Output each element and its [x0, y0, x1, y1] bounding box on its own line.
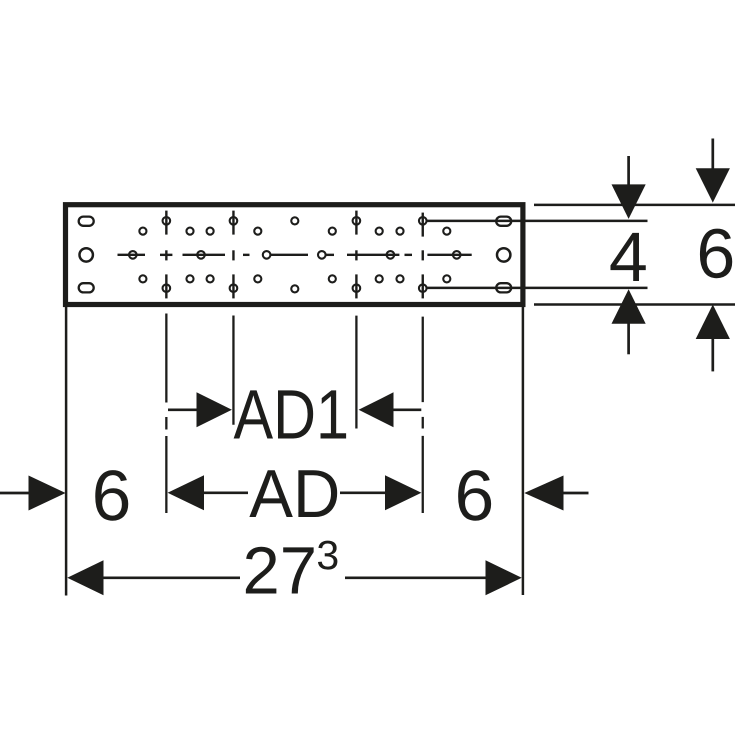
extension line phi column 1 (dashed): [165, 314, 167, 514]
phi holes bottom: [163, 274, 427, 298]
dimension 27 right arrow: [345, 560, 522, 595]
svg-text:6: 6: [455, 456, 495, 536]
extension line plate left edge (below): [65, 307, 68, 596]
big circle hole left: [80, 248, 93, 261]
extension line plate top edge (right side): [534, 204, 735, 207]
dimension 6 bottom arrow (right): [696, 305, 730, 372]
svg-text:6: 6: [696, 215, 735, 293]
phi holes top (circle with vertical centerline): [163, 211, 427, 237]
extension line phi column 2: [232, 316, 234, 425]
dimension 4 bottom arrow: [612, 289, 646, 354]
dimension AD1 right arrow: [359, 392, 422, 427]
dimension AD right arrow: [340, 475, 421, 510]
label superscript 3: [318, 541, 337, 570]
dimension 6 top arrow (right): [696, 139, 730, 203]
extension line plate bottom edge (right side): [534, 303, 735, 306]
small holes top row: [139, 217, 450, 234]
horizontal centerline (chain line) of plate: [118, 250, 472, 260]
big circle hole right: [497, 248, 510, 261]
extension line phi column 4 (dashed): [422, 317, 424, 513]
small holes bottom row: [139, 275, 450, 292]
svg-text:6: 6: [92, 456, 132, 536]
slot hole bottom-left: [79, 283, 94, 292]
svg-text:4: 4: [609, 218, 648, 296]
centerline hole circles: [129, 251, 461, 259]
slot hole top-right: [496, 217, 511, 226]
svg-text:27: 27: [243, 534, 318, 609]
dimension 6 bottom-right: arrow and tail: [524, 476, 588, 511]
extension line bottom phi row: [427, 287, 648, 290]
dimension 27 left arrow: [67, 560, 240, 595]
svg-text:AD1: AD1: [234, 375, 350, 453]
slot hole bottom-right: [496, 283, 511, 292]
extension line plate right edge (below): [522, 307, 525, 595]
extension line top phi row: [427, 220, 648, 223]
svg-text:AD: AD: [249, 456, 340, 532]
plate outline: [66, 205, 523, 305]
extension line phi column 3: [355, 316, 357, 429]
slot hole top-left: [79, 217, 94, 226]
dimension 6 left: tail line and arrow: [0, 476, 66, 511]
dimension 4 top arrow: [612, 156, 646, 219]
dimension AD left arrow: [168, 475, 248, 510]
dimension AD1 left arrow: [168, 392, 232, 427]
